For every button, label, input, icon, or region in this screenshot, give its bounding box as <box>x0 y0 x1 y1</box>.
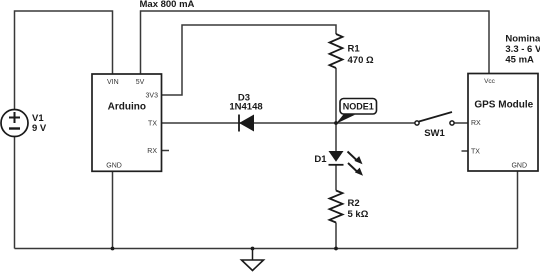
wire: GPS TX stub <box>462 150 469 152</box>
wire: 5V riser and Max 800 mA rail to GPS Vcc <box>141 11 490 74</box>
label D3 1N4148 <box>229 93 262 113</box>
svg-text:3V3: 3V3 <box>146 92 159 99</box>
svg-text:TX: TX <box>148 121 157 128</box>
wire: switch to GPS RX <box>454 122 468 124</box>
svg-text:RX: RX <box>471 120 481 127</box>
svg-text:45 mA: 45 mA <box>505 55 534 66</box>
label R1 470 ohm <box>348 44 374 67</box>
svg-text:5 kΩ: 5 kΩ <box>348 209 369 220</box>
svg-text:3.3 - 6 V: 3.3 - 6 V <box>505 44 540 55</box>
svg-text:R2: R2 <box>348 198 360 209</box>
svg-text:TX: TX <box>471 149 480 156</box>
svg-text:Vcc: Vcc <box>484 78 496 85</box>
wire: Arduino RX stub <box>162 150 170 152</box>
svg-text:SW1: SW1 <box>424 128 445 139</box>
wire: TX line from Arduino to switch <box>162 122 415 124</box>
junction dot at R2 / rail <box>334 247 338 251</box>
resistor R1 <box>330 34 343 68</box>
svg-text:Max 800 mA: Max 800 mA <box>140 0 195 10</box>
wire: R2 bottom to ground rail <box>335 223 337 249</box>
svg-text:1N4148: 1N4148 <box>229 102 262 113</box>
GPS Module box <box>468 74 538 172</box>
label R2 5 kohm <box>348 198 369 220</box>
node NODE1 callout box <box>340 99 377 115</box>
voltage source V1 <box>1 110 28 137</box>
junction dot at Arduino GND / rail <box>111 247 115 251</box>
svg-text:GPS Module: GPS Module <box>474 100 533 111</box>
LED D1 <box>329 151 344 165</box>
svg-text:VIN: VIN <box>107 79 119 86</box>
svg-text:RX: RX <box>147 148 157 155</box>
wire: NODE1 to LED D1 <box>335 123 337 151</box>
resistor R2 <box>330 191 343 223</box>
wire: V1 top to VIN rail <box>15 11 113 110</box>
svg-text:5V: 5V <box>136 79 145 86</box>
svg-text:GND: GND <box>106 163 122 170</box>
svg-text:GND: GND <box>511 163 527 170</box>
node NODE1 junction dot <box>334 121 338 125</box>
diode D3 1N4148 <box>239 115 254 132</box>
ground symbol <box>242 249 264 271</box>
svg-text:NODE1: NODE1 <box>343 102 374 112</box>
svg-text:470 Ω: 470 Ω <box>348 55 374 66</box>
wire: ground rail <box>15 248 518 250</box>
wire: 3V3 to R1 top <box>162 25 337 95</box>
svg-text:R1: R1 <box>348 44 361 55</box>
Arduino U1 box <box>92 74 162 171</box>
LED D1 emission arrows <box>348 152 364 176</box>
node NODE1 callout pointer <box>336 114 355 124</box>
wire: V1 bottom to ground rail <box>14 137 16 249</box>
svg-text:Arduino: Arduino <box>108 102 146 113</box>
label Nominal 3.3-6V 45mA <box>505 34 540 66</box>
svg-text:D1: D1 <box>314 154 327 165</box>
wire: LED D1 to R2 <box>335 165 337 191</box>
wire: Arduino GND drop <box>112 171 114 248</box>
svg-text:Nominal: Nominal <box>505 34 540 45</box>
junction dot at ground symbol <box>251 247 255 251</box>
switch SW1 <box>415 112 454 125</box>
wire: GPS GND drop <box>517 171 519 249</box>
wire: R1 bottom to NODE1 junction <box>335 68 337 123</box>
label V1 9 V <box>32 113 47 134</box>
svg-text:9 V: 9 V <box>32 123 47 134</box>
